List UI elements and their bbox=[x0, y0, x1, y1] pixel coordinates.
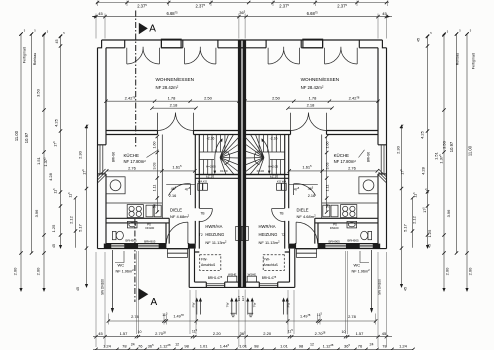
svg-text:2.12: 2.12 bbox=[412, 215, 417, 224]
window block between french doors bbox=[161, 39, 181, 48]
svg-text:NF 11.13m2: NF 11.13m2 bbox=[205, 240, 227, 245]
svg-text:45: 45 bbox=[98, 11, 103, 16]
svg-text:Fertigmaß: Fertigmaß bbox=[23, 46, 27, 63]
svg-text:2.00: 2.00 bbox=[468, 267, 473, 276]
staircase lower flight treads bbox=[199, 160, 214, 175]
svg-text:45: 45 bbox=[76, 287, 80, 291]
svg-text:5.17: 5.17 bbox=[78, 223, 83, 232]
svg-text:FW-: FW- bbox=[201, 258, 207, 262]
svg-text:45: 45 bbox=[428, 244, 432, 248]
extension lines top bbox=[96, 14, 386, 39]
section line A-A bottom bbox=[134, 219, 136, 302]
svg-text:FW: FW bbox=[192, 303, 196, 308]
staircase mid landing line bbox=[199, 151, 228, 153]
svg-text:1.57: 1.57 bbox=[120, 331, 129, 336]
protrusion west wall bbox=[189, 249, 194, 288]
kitchen bottom counter bbox=[106, 202, 162, 204]
SW DN100 drain line+arrow bbox=[111, 250, 113, 309]
svg-text:TB: TB bbox=[279, 212, 283, 216]
svg-text:2.76: 2.76 bbox=[128, 166, 137, 171]
svg-text:±0.00: ±0.00 bbox=[257, 169, 265, 173]
right chain C2 (Rohbau 10.97) bbox=[456, 34, 458, 253]
party wall (left leaf) bbox=[238, 40, 242, 287]
svg-text:±2.16: ±2.16 bbox=[270, 175, 278, 179]
svg-text:4.28: 4.28 bbox=[421, 166, 426, 175]
kitchen right partition bbox=[161, 135, 163, 219]
svg-text:3.96: 3.96 bbox=[34, 209, 39, 218]
svg-text:10.97: 10.97 bbox=[24, 132, 29, 143]
niche in party wall at HWR bbox=[236, 226, 242, 240]
svg-text:BRH90: BRH90 bbox=[367, 152, 371, 163]
svg-text:45: 45 bbox=[55, 40, 59, 44]
kitchen counter left with sink bbox=[106, 177, 125, 194]
hall door dim line bbox=[166, 183, 195, 185]
svg-text:45: 45 bbox=[382, 11, 387, 16]
svg-text:ELT: ELT bbox=[241, 296, 245, 301]
svg-text:45: 45 bbox=[52, 244, 56, 248]
svg-text:NF 17.80m2: NF 17.80m2 bbox=[124, 159, 147, 164]
FW-Anschluss dashed box bbox=[200, 255, 221, 271]
svg-text:1.51: 1.51 bbox=[36, 156, 41, 165]
svg-text:1.11: 1.11 bbox=[152, 185, 156, 192]
right chain C3 bbox=[443, 34, 445, 290]
svg-text:BRH905: BRH905 bbox=[347, 239, 359, 243]
svg-text:1.60: 1.60 bbox=[326, 142, 330, 149]
protrusion window glazing bbox=[206, 284, 224, 286]
washing machine box bbox=[228, 276, 237, 282]
right unit structure (mirror) bbox=[241, 39, 386, 314]
staircase outline bbox=[199, 174, 239, 176]
svg-text:BRH905: BRH905 bbox=[144, 240, 156, 244]
svg-text:A: A bbox=[150, 297, 157, 308]
svg-text:3.50: 3.50 bbox=[36, 88, 41, 97]
svg-text:±0.00: ±0.00 bbox=[220, 169, 228, 173]
svg-text:76: 76 bbox=[358, 343, 363, 348]
svg-text:DN100: DN100 bbox=[145, 226, 154, 230]
svg-text:WSHE: WSHE bbox=[228, 272, 237, 276]
wall: left exterior wall outer face bbox=[97, 48, 99, 249]
svg-text:WA: WA bbox=[198, 179, 203, 183]
svg-text:NF 28.42m2: NF 28.42m2 bbox=[156, 85, 179, 90]
svg-text:10.97: 10.97 bbox=[449, 141, 454, 152]
svg-text:2.00: 2.00 bbox=[36, 267, 41, 276]
interior dim row living room bbox=[246, 101, 379, 108]
svg-text:KÜCHE: KÜCHE bbox=[124, 153, 139, 158]
svg-text:1.25: 1.25 bbox=[51, 224, 56, 233]
svg-text:NF 1.96m2: NF 1.96m2 bbox=[352, 268, 371, 273]
svg-text:NF 4.68m2: NF 4.68m2 bbox=[297, 214, 317, 219]
svg-text:1.01: 1.01 bbox=[239, 343, 248, 348]
svg-text:98: 98 bbox=[299, 343, 304, 348]
svg-text:10: 10 bbox=[138, 330, 142, 334]
svg-text:78: 78 bbox=[122, 343, 127, 348]
wall: jambs of top openings bbox=[125, 40, 218, 48]
svg-text:2.30: 2.30 bbox=[78, 150, 83, 159]
right chain C1 (Fertigmass 11.00) bbox=[466, 34, 468, 290]
stair/HWR west wall with HWR door opening bbox=[195, 135, 199, 249]
WC toilet bbox=[112, 231, 116, 239]
svg-text:T2: T2 bbox=[281, 233, 285, 237]
HWR door arc bbox=[199, 209, 212, 222]
svg-text:3.96: 3.96 bbox=[446, 209, 451, 218]
kitchen vertical dim bbox=[326, 137, 328, 213]
svg-text:2.78: 2.78 bbox=[348, 314, 357, 319]
svg-text:TB: TB bbox=[200, 212, 204, 216]
svg-text:3.03: 3.03 bbox=[152, 163, 156, 170]
svg-text:1.24: 1.24 bbox=[399, 343, 408, 348]
svg-text:45: 45 bbox=[98, 331, 103, 336]
svg-text:78: 78 bbox=[382, 343, 387, 348]
svg-text:4.25: 4.25 bbox=[420, 130, 425, 139]
svg-text:2.00: 2.00 bbox=[12, 267, 17, 276]
left chain C4 bbox=[60, 36, 62, 247]
svg-text:1.01: 1.01 bbox=[280, 343, 289, 348]
kitchen vertical dim bbox=[156, 137, 158, 213]
svg-text:HWR/HA: HWR/HA bbox=[259, 224, 276, 229]
kitchen dim row bbox=[289, 170, 377, 172]
svg-text:TW: TW bbox=[226, 303, 230, 308]
bottom exterior wall inner+outer faces bbox=[98, 244, 190, 249]
svg-text:11.00: 11.00 bbox=[14, 130, 19, 141]
protrusion bottom wall with window bbox=[189, 282, 242, 287]
svg-text:1.24: 1.24 bbox=[103, 343, 112, 348]
left chain C3 bbox=[43, 34, 45, 290]
staircase upper flight treads bbox=[203, 135, 225, 153]
svg-text:24: 24 bbox=[131, 342, 135, 346]
section line A-A top bbox=[135, 11, 137, 149]
svg-text:45: 45 bbox=[404, 287, 408, 291]
entrance steps bbox=[168, 249, 188, 253]
svg-text:NF 28.42m2: NF 28.42m2 bbox=[301, 85, 324, 90]
utility entry arrows FW TW ELT bbox=[197, 302, 236, 315]
svg-text:2.12: 2.12 bbox=[69, 215, 74, 224]
svg-text:1.11: 1.11 bbox=[326, 185, 330, 192]
svg-text:-2.16: -2.16 bbox=[207, 136, 215, 140]
left chain C1 (Fertigmass 11.00) bbox=[20, 34, 22, 290]
svg-text:Anschluß: Anschluß bbox=[201, 263, 215, 267]
WC washbasin bbox=[127, 221, 137, 228]
staircase winder rays bbox=[220, 135, 239, 175]
svg-text:2.30: 2.30 bbox=[396, 145, 401, 154]
section arrow A top bbox=[139, 23, 148, 35]
svg-text:WC: WC bbox=[354, 262, 361, 267]
svg-text:2.16: 2.16 bbox=[308, 194, 315, 198]
closet boxes WA KO bbox=[198, 183, 203, 190]
svg-text:BRH1.475: BRH1.475 bbox=[208, 275, 223, 280]
double door living->hall arcs bbox=[158, 113, 194, 131]
interior dim row living room bbox=[106, 101, 239, 108]
kitchen dim row bbox=[107, 170, 195, 172]
extension lines bottom bbox=[96, 251, 386, 347]
hatch at kitchen window lower jamb bbox=[98, 169, 106, 183]
bottom dim row A bbox=[108, 320, 375, 322]
svg-text:NF 11.13m2: NF 11.13m2 bbox=[259, 240, 281, 245]
svg-text:2.20: 2.20 bbox=[263, 331, 272, 336]
svg-text:NF 4.68m2: NF 4.68m2 bbox=[170, 214, 190, 219]
svg-text:5.17: 5.17 bbox=[403, 223, 408, 232]
right chain C6 bbox=[401, 126, 403, 286]
svg-text:WC: WC bbox=[118, 262, 125, 267]
svg-text:Anschluß: Anschluß bbox=[264, 263, 278, 267]
svg-text:Rohbau: Rohbau bbox=[456, 53, 460, 66]
svg-text:WA: WA bbox=[282, 179, 287, 183]
svg-text:HEIZUNG: HEIZUNG bbox=[259, 232, 278, 237]
svg-text:Fertigmaß: Fertigmaß bbox=[472, 52, 476, 69]
kitchen hob 4 circles bbox=[127, 205, 143, 218]
WC right wall bbox=[166, 218, 169, 243]
svg-text:DIELE: DIELE bbox=[170, 207, 182, 212]
section arrow A bottom bbox=[139, 288, 149, 300]
top dim row 1 bbox=[96, 2, 389, 4]
svg-text:98: 98 bbox=[254, 343, 259, 348]
right chain C5 (short) bbox=[412, 198, 414, 248]
wall: left exterior wall inner face with kitchen window opening bbox=[105, 48, 107, 244]
svg-text:12: 12 bbox=[175, 342, 179, 346]
drain symbol marks bbox=[231, 313, 254, 317]
kitchen label leader bbox=[359, 150, 365, 158]
svg-text:A: A bbox=[149, 24, 156, 35]
svg-text:2.18: 2.18 bbox=[170, 103, 179, 108]
svg-text:2.50: 2.50 bbox=[272, 96, 281, 101]
svg-text:-2.16: -2.16 bbox=[270, 136, 278, 140]
wall between living room and kitchen/stair zone bbox=[106, 131, 239, 135]
svg-text:WOHNEN/ESSEN: WOHNEN/ESSEN bbox=[301, 77, 340, 82]
bottom wall piers bbox=[104, 244, 112, 249]
svg-text:FW-: FW- bbox=[264, 258, 270, 262]
kitchen bottom wall / WC top wall bbox=[106, 218, 169, 223]
svg-text:76: 76 bbox=[138, 343, 143, 348]
kitchen appliance boxes bbox=[146, 205, 153, 217]
double door living->hall leaves bbox=[158, 113, 194, 131]
svg-text:SW DN100: SW DN100 bbox=[101, 279, 105, 295]
svg-text:1.01: 1.01 bbox=[200, 343, 209, 348]
svg-text:BRH90: BRH90 bbox=[112, 152, 116, 163]
french door B leaves bbox=[185, 48, 216, 64]
svg-text:NF 1.96m2: NF 1.96m2 bbox=[116, 268, 135, 273]
left unit structure bbox=[98, 39, 243, 314]
kitchen label leader bbox=[147, 150, 159, 158]
svg-text:50: 50 bbox=[326, 204, 330, 208]
svg-text:11.00: 11.00 bbox=[468, 145, 473, 156]
HWR door leaf bbox=[199, 208, 212, 210]
svg-text:1.78: 1.78 bbox=[309, 96, 318, 101]
chain top end ticks bbox=[19, 32, 468, 38]
svg-text:4.25: 4.25 bbox=[54, 118, 59, 127]
hall door arc to kitchen corridor bbox=[168, 184, 190, 196]
right chain C4 bbox=[427, 36, 429, 247]
svg-text:KÜCHE: KÜCHE bbox=[334, 153, 349, 158]
entrance door leaf bbox=[187, 222, 189, 244]
svg-text:FW: FW bbox=[287, 303, 291, 308]
svg-text:1.25: 1.25 bbox=[427, 229, 432, 238]
svg-text:3.50: 3.50 bbox=[442, 140, 447, 149]
french door B arcs bbox=[185, 47, 216, 64]
left chain C2 (Rohbau 10.97) bbox=[31, 34, 33, 253]
wall: top exterior wall inner face with two french-door openings bbox=[106, 47, 243, 49]
svg-text:WSHE: WSHE bbox=[248, 272, 257, 276]
left chain C5 (short) bbox=[75, 198, 77, 248]
left chain C6 bbox=[86, 126, 88, 286]
svg-text:DN100: DN100 bbox=[330, 226, 339, 230]
stair bottom wall bbox=[195, 175, 239, 179]
svg-text:3.03: 3.03 bbox=[326, 163, 330, 170]
svg-text:2.76: 2.76 bbox=[348, 166, 357, 171]
svg-text:2.16: 2.16 bbox=[169, 194, 176, 198]
svg-text:DIELE: DIELE bbox=[297, 207, 309, 212]
kitchen window jambs bbox=[98, 145, 107, 174]
kitchen window glazing bbox=[100, 145, 103, 174]
svg-text:24: 24 bbox=[370, 342, 374, 346]
svg-text:50: 50 bbox=[152, 204, 156, 208]
svg-text:H=2.05: H=2.05 bbox=[268, 165, 278, 169]
bottom wall window glazing (2 windows) bbox=[111, 245, 158, 247]
svg-text:±2.16: ±2.16 bbox=[206, 175, 214, 179]
svg-text:2.50: 2.50 bbox=[204, 96, 213, 101]
svg-text:HWR/HA: HWR/HA bbox=[205, 224, 222, 229]
svg-text:TW: TW bbox=[253, 303, 257, 308]
svg-text:98: 98 bbox=[184, 343, 189, 348]
svg-text:2.20: 2.20 bbox=[213, 331, 222, 336]
bottom dim row B bbox=[93, 336, 392, 338]
svg-text:Rohbau: Rohbau bbox=[33, 53, 37, 66]
svg-text:12: 12 bbox=[310, 342, 314, 346]
svg-text:WOHNEN/ESSEN: WOHNEN/ESSEN bbox=[156, 77, 195, 82]
svg-text:2.18: 2.18 bbox=[307, 103, 316, 108]
french door A arcs bbox=[127, 47, 160, 64]
svg-text:1.60: 1.60 bbox=[152, 142, 156, 149]
entrance door arc bbox=[166, 222, 188, 244]
svg-text:BRH905: BRH905 bbox=[329, 240, 341, 244]
svg-text:T2: T2 bbox=[199, 233, 203, 237]
inner corner join bbox=[195, 249, 200, 252]
svg-text:10: 10 bbox=[342, 330, 346, 334]
top dim row 2 bbox=[92, 16, 392, 18]
french door A leaves bbox=[127, 48, 160, 64]
staircase winder arc bbox=[225, 152, 230, 165]
svg-text:HEIZUNG: HEIZUNG bbox=[205, 232, 224, 237]
staircase walking line with arrow bbox=[215, 139, 222, 173]
bottom dim row C bbox=[93, 348, 413, 350]
svg-text:BRH1.475: BRH1.475 bbox=[262, 275, 277, 280]
svg-text:1.57: 1.57 bbox=[356, 331, 365, 336]
svg-text:4.28: 4.28 bbox=[48, 172, 53, 181]
svg-text:NF 17.80m2: NF 17.80m2 bbox=[334, 159, 357, 164]
wall: top exterior wall outer face bbox=[102, 39, 243, 41]
svg-text:1.78: 1.78 bbox=[168, 96, 177, 101]
svg-text:H=2.05: H=2.05 bbox=[206, 165, 216, 169]
svg-text:2.00: 2.00 bbox=[445, 267, 450, 276]
svg-text:45: 45 bbox=[417, 38, 421, 42]
wall: top-left corner notch bbox=[98, 40, 102, 48]
